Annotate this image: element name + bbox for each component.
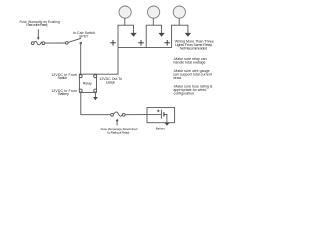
battery box: [147, 108, 175, 123]
wire bus down to relay output: [97, 48, 119, 75]
lamp L2 ground arrow: [158, 33, 164, 37]
lamp L2 bulb: [148, 6, 160, 18]
lamp L3 plus sign: [164, 40, 170, 46]
lamp L1 ground arrow: [130, 33, 136, 37]
relay terminal bottom-right: [94, 89, 97, 92]
wire fuse F1 to switch: [45, 42, 66, 44]
lamp L3 bracket: [172, 25, 188, 47]
switch S1 right contact: [80, 42, 82, 44]
lamp L1 bracket: [118, 25, 134, 47]
lamp L1 bulb: [119, 6, 131, 18]
wire fuse F2 to battery: [125, 114, 147, 116]
svg-text:Battery: Battery: [58, 92, 69, 96]
svg-text:Switch: Switch: [58, 76, 68, 80]
lamp L2 plus sign: [138, 40, 144, 46]
notes: bullet make sure relay can handle total wattage: [173, 57, 207, 65]
lamp L2 bracket: [146, 25, 161, 47]
svg-text:SPST: SPST: [79, 34, 89, 38]
wire switch to relay coil input: [80, 44, 82, 75]
notes: wiring recommendation heading: [175, 40, 214, 51]
switch S1 blade: [68, 38, 81, 42]
lamp L3 bulb: [173, 6, 185, 18]
battery B1 symbol: [147, 110, 167, 123]
switch S1 left contact: [66, 42, 69, 45]
wire relay to fuse F2: [81, 92, 111, 115]
label fuse F2 (Amperage Determined by Rating of Relay): [101, 127, 138, 134]
lamp L1 plus sign: [110, 40, 116, 46]
ground below relay: [93, 92, 98, 100]
bus wire connecting lamps: [118, 47, 172, 49]
relay terminal top-left: [79, 75, 82, 78]
relay terminal top-right: [94, 75, 97, 78]
label 12VDC In From Switch: [51, 73, 77, 80]
arrow pointing to fuse F1: [37, 29, 40, 40]
label In-Cab Switch SPST: [73, 31, 96, 38]
label fuse F1 (Normally an Existing Fuse on the Panel): [19, 20, 60, 27]
svg-text:Relay: Relay: [83, 82, 92, 86]
lamp L2 lead: [152, 18, 154, 25]
relay K1 box: [79, 74, 96, 92]
svg-text:by Rating of Relay): by Rating of Relay): [107, 131, 129, 135]
lamp L3 ground arrow: [185, 33, 191, 37]
svg-text:Lamps: Lamps: [106, 80, 115, 84]
lamp L3 lead: [178, 18, 180, 25]
notes: bullet make sure fuse rating is appropriate for wired configuration: [173, 85, 213, 96]
arrow pointing to fuse F2: [116, 119, 119, 126]
fuse F1: [31, 41, 44, 44]
lamp L1 lead: [124, 18, 126, 25]
svg-text:configuration: configuration: [173, 92, 194, 96]
ground below battery: [165, 123, 170, 126]
svg-text:Not Recommended: Not Recommended: [180, 47, 207, 51]
fuse F2: [111, 112, 125, 116]
notes: bullet make sure wire gauge can support total current draw: [173, 69, 212, 80]
svg-text:Battery: Battery: [156, 127, 166, 131]
svg-text:draw: draw: [173, 76, 181, 80]
svg-text:Fuse on the Panel): Fuse on the Panel): [26, 23, 47, 27]
relay terminal bottom-left: [79, 89, 82, 92]
svg-text:handle total wattage: handle total wattage: [173, 60, 205, 64]
label 12VDC Out To Lamps: [99, 77, 122, 84]
label 12VDC In From Battery: [51, 89, 77, 96]
